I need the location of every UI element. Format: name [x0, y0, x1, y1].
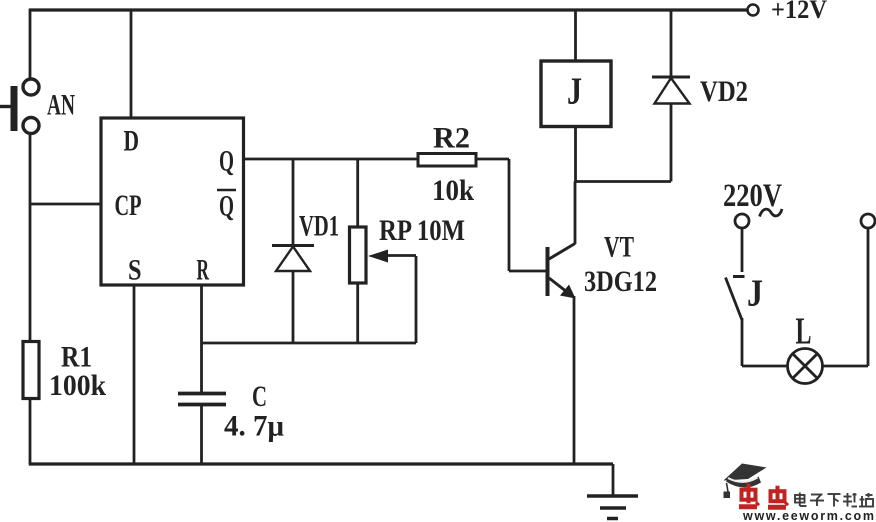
label 220V — [723, 178, 782, 217]
wire left rail below button — [29, 133, 32, 465]
resistor R1 — [23, 342, 39, 399]
label VD2 — [700, 75, 748, 108]
resistor R2 — [418, 154, 476, 167]
watermark chongchong red glyphs — [739, 484, 788, 508]
wire R down — [200, 285, 203, 393]
label VD1 — [299, 210, 339, 243]
watermark chinese site name — [795, 493, 873, 507]
wire collector junction to VD2 — [575, 180, 671, 183]
ground — [587, 464, 638, 519]
svg-text:10k: 10k — [432, 174, 474, 207]
label L — [796, 311, 812, 353]
wire Q output — [244, 158, 419, 161]
svg-text:VT: VT — [604, 231, 634, 264]
label +12V — [771, 0, 827, 24]
label AN — [47, 89, 75, 122]
capacitor C — [178, 394, 226, 465]
svg-text:220V: 220V — [723, 178, 782, 214]
label C 4.7u — [224, 380, 284, 443]
flip-flop U1 box — [101, 118, 244, 287]
relay coil J — [541, 10, 611, 182]
svg-text:R2: R2 — [433, 122, 470, 155]
wire top +12V rail — [29, 8, 748, 11]
label 10k — [432, 174, 474, 207]
svg-text:+12V: +12V — [771, 0, 827, 24]
svg-text:100k: 100k — [49, 369, 106, 402]
svg-text:4. 7μ: 4. 7μ — [224, 410, 284, 443]
label RP 10M — [379, 214, 465, 247]
wire D input from top rail — [130, 10, 133, 118]
label R2 — [433, 122, 470, 155]
pushbutton AN — [0, 79, 39, 134]
svg-text:D: D — [124, 125, 140, 158]
svg-text:J: J — [747, 273, 763, 315]
watermark url — [742, 509, 874, 522]
svg-text:C: C — [252, 380, 267, 413]
node 220V right terminal — [861, 214, 875, 228]
transistor VT — [546, 182, 576, 465]
svg-text:www.eeworm.com: www.eeworm.com — [742, 509, 874, 522]
svg-text:RP 10M: RP 10M — [379, 214, 465, 247]
wire S to ground rail — [133, 285, 136, 464]
svg-text:3DG12: 3DG12 — [584, 265, 657, 298]
label VT 3DG12 — [584, 231, 657, 299]
switch J contact — [726, 228, 745, 367]
svg-text:Q: Q — [219, 145, 234, 178]
wire CP input — [30, 203, 101, 206]
svg-text:VD1: VD1 — [299, 210, 339, 243]
diode VD1 — [272, 159, 314, 343]
svg-text:VD2: VD2 — [700, 75, 748, 108]
node +12V terminal — [748, 5, 759, 16]
wire lamp left — [742, 365, 788, 368]
svg-text:AN: AN — [47, 89, 75, 122]
svg-text:J: J — [567, 71, 582, 113]
node 220V left terminal — [735, 214, 749, 228]
diode VD2 — [652, 10, 690, 182]
svg-text:R: R — [197, 254, 210, 287]
wire bottom ground rail — [29, 462, 613, 465]
wire left rail top — [29, 9, 32, 79]
label J switch — [747, 273, 763, 315]
watermark logo cap — [724, 464, 767, 499]
wire R2 to base — [476, 159, 546, 271]
svg-text:Q: Q — [219, 190, 234, 223]
svg-text:CP: CP — [115, 189, 142, 222]
label R1 100k — [49, 341, 106, 403]
svg-text:S: S — [128, 254, 142, 287]
svg-text:L: L — [796, 311, 812, 353]
wire right terminal drop — [867, 228, 870, 367]
wire RC bottom link — [202, 342, 417, 345]
lamp L — [788, 349, 823, 384]
potentiometer RP — [350, 159, 417, 343]
wire lamp right — [823, 365, 869, 368]
